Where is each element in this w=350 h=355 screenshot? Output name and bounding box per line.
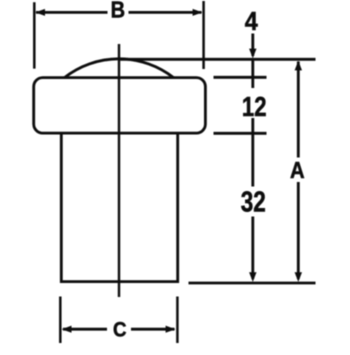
arrowhead C left bbox=[62, 326, 72, 333]
arrowhead 32 down bbox=[249, 272, 256, 282]
svg-text:B: B bbox=[111, 0, 125, 23]
arrowhead B left bbox=[35, 9, 45, 16]
centerline bbox=[118, 44, 120, 297]
vertical chain line below 12 label bbox=[251, 118, 254, 187]
cap-top tick line bbox=[214, 76, 267, 79]
dimension B line left segment bbox=[36, 11, 108, 14]
vertical chain line below dome-top line bbox=[251, 61, 254, 89]
dimension B line right segment bbox=[129, 11, 202, 14]
dimension C right extension line bbox=[176, 297, 179, 344]
dimension C left extension line bbox=[59, 297, 62, 344]
dimension A upper line segment bbox=[297, 62, 300, 158]
dimension 32 leader line bbox=[251, 217, 254, 280]
dimension B right extension line bbox=[202, 1, 205, 69]
arrowhead A down bbox=[295, 272, 302, 282]
dome arc on top of cap bbox=[65, 59, 174, 78]
svg-text:4: 4 bbox=[245, 8, 258, 36]
arrowhead A up bbox=[295, 61, 302, 71]
svg-text:12: 12 bbox=[242, 91, 267, 122]
svg-text:A: A bbox=[290, 157, 305, 184]
door stop cap (rounded rectangle body) bbox=[34, 78, 206, 134]
stem-bottom extension line (bottom reference for 32 and A) bbox=[189, 282, 316, 285]
arrowhead B right bbox=[193, 9, 203, 16]
dimension A lower line segment bbox=[297, 182, 300, 279]
stem (lower cylinder outline) bbox=[61, 133, 177, 282]
arrowhead C right bbox=[166, 326, 176, 333]
dome-top extension line (top reference for 4 and A) bbox=[118, 58, 316, 61]
svg-text:32: 32 bbox=[241, 187, 266, 218]
arrowhead 4 down bbox=[249, 49, 256, 59]
dimension B left extension line bbox=[33, 2, 36, 68]
cap-bottom tick line bbox=[214, 132, 267, 135]
dimension 4 leader line bbox=[251, 34, 254, 57]
dimension C line left segment bbox=[63, 328, 107, 331]
dimension C line right segment bbox=[131, 328, 175, 331]
svg-text:C: C bbox=[113, 318, 127, 341]
